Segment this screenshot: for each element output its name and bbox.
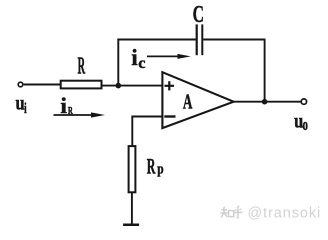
wire resistor to op-amp + input: [103, 85, 163, 87]
svg-text:i: i: [131, 45, 137, 70]
wire op-amp output: [234, 101, 301, 103]
label i_c: [131, 45, 145, 72]
label Rp: [147, 153, 164, 178]
input terminal u_i circle: [18, 82, 23, 87]
label u_o: [294, 110, 308, 135]
wire Rp to ground: [131, 192, 133, 224]
svg-text:R: R: [147, 153, 156, 178]
svg-text:@transoki: @transoki: [248, 206, 322, 222]
op-amp - input marker: [164, 115, 175, 117]
capacitor C plates: [197, 24, 203, 55]
svg-text:R: R: [78, 53, 86, 79]
wire top right segment from capacitor to corner: [203, 39, 265, 41]
label i_R: [60, 94, 73, 119]
op-amp A triangle: [162, 72, 233, 128]
label u_i: [16, 92, 28, 117]
wire feedback down to output node: [264, 39, 266, 102]
wire input to resistor R: [24, 84, 60, 86]
svg-text:C: C: [193, 2, 204, 28]
watermark 知乎 @transoki: [220, 206, 242, 218]
wire vertical up to capacitor line: [117, 39, 119, 86]
svg-text:o: o: [303, 116, 308, 135]
svg-text:c: c: [138, 54, 145, 72]
wire top left segment to capacitor: [117, 39, 195, 41]
op-amp + input marker: [165, 81, 175, 90]
resistor Rp: [129, 146, 136, 192]
ground: [123, 224, 139, 227]
arrow i_c: [147, 54, 191, 59]
node junction dot at R output: [116, 83, 122, 89]
node output junction dot: [262, 99, 268, 105]
svg-text:u: u: [16, 92, 25, 115]
svg-text:A: A: [183, 89, 193, 113]
arrow i_R: [54, 112, 106, 117]
output terminal u_o circle: [301, 99, 306, 104]
wire down to Rp: [131, 117, 133, 146]
wire - input: [131, 116, 162, 118]
resistor R: [61, 81, 102, 89]
svg-text:p: p: [157, 160, 163, 177]
